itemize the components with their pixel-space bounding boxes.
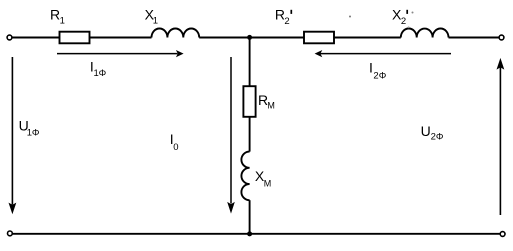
speck between labels xyxy=(349,16,351,18)
svg-text:1: 1 xyxy=(60,16,65,27)
inductor XM xyxy=(241,152,249,201)
svg-text:Φ: Φ xyxy=(32,128,40,139)
wire: X2' to top-right terminal xyxy=(449,37,500,39)
label XM xyxy=(255,168,271,188)
wire: bottom bus xyxy=(12,233,500,235)
svg-text:Φ: Φ xyxy=(436,131,444,142)
svg-text:Φ: Φ xyxy=(379,70,387,81)
wire: node A down to RM xyxy=(249,38,251,87)
label RM xyxy=(258,92,275,111)
svg-text:1: 1 xyxy=(153,15,158,26)
wire: R1 to X1 xyxy=(90,37,152,39)
svg-text:I: I xyxy=(369,59,373,75)
wire: XM to node B xyxy=(249,200,251,234)
label R2' xyxy=(275,7,291,27)
label X2' xyxy=(392,7,407,27)
current arrow I0 xyxy=(227,57,235,214)
label I0 xyxy=(170,131,179,153)
terminal top-left xyxy=(7,35,12,40)
label X1 xyxy=(145,7,158,27)
svg-text:2: 2 xyxy=(284,16,289,27)
inductor X2' xyxy=(401,28,449,37)
resistor R2' xyxy=(304,32,334,44)
junction node B xyxy=(247,231,252,236)
wire: top-left terminal to R1 xyxy=(12,37,60,39)
svg-text:2: 2 xyxy=(401,16,406,27)
voltage arrow U2Φ xyxy=(497,58,505,215)
terminal top-right xyxy=(499,35,504,40)
current arrow I2Φ xyxy=(315,50,451,57)
resistor RM xyxy=(243,86,255,117)
terminal bottom-right xyxy=(500,232,505,237)
wire: RM to XM xyxy=(249,117,251,152)
voltage arrow U1Φ xyxy=(9,57,17,214)
label I2Φ xyxy=(369,59,387,81)
label I1Φ xyxy=(90,59,107,79)
svg-text:U: U xyxy=(421,123,431,139)
svg-text:Φ: Φ xyxy=(99,68,107,79)
resistor R1 xyxy=(60,32,90,44)
inductor X1 xyxy=(152,28,200,37)
wire: R2' to X2' xyxy=(334,37,401,39)
svg-text:0: 0 xyxy=(173,142,178,153)
svg-text:R: R xyxy=(50,7,60,23)
junction node A xyxy=(247,35,252,40)
current arrow I1Φ xyxy=(57,50,184,57)
speck right of X2' label xyxy=(408,12,414,29)
label U1Φ xyxy=(19,118,40,139)
label U2Φ xyxy=(421,123,444,142)
terminal bottom-left xyxy=(7,231,12,236)
svg-text:M: M xyxy=(267,101,275,111)
svg-text:M: M xyxy=(264,178,272,188)
wire: node A to R2' xyxy=(250,37,304,39)
label R1 xyxy=(50,7,65,27)
wire: X1 to node A xyxy=(199,37,249,39)
